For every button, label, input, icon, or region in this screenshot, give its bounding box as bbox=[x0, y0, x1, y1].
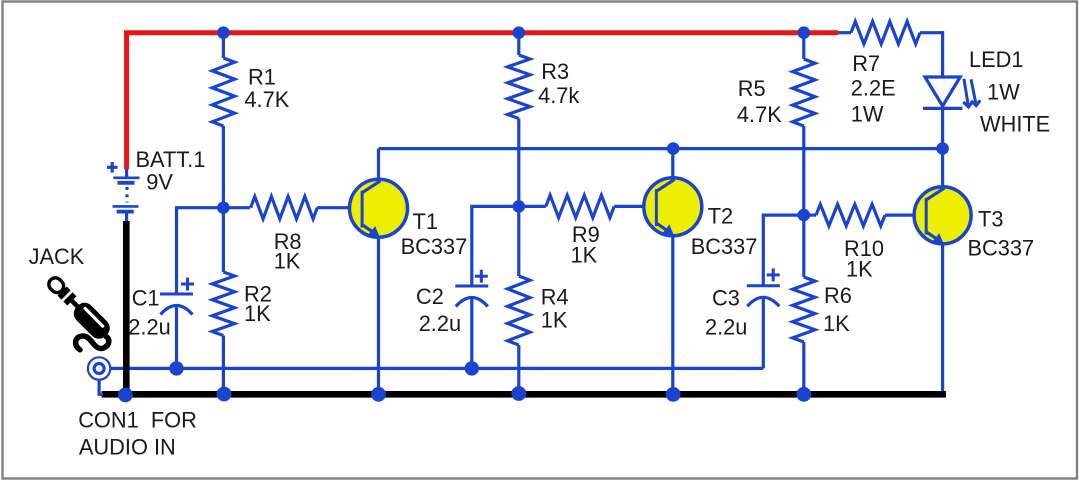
wire battery negative lead (black) bbox=[123, 221, 130, 394]
resistor R3 bbox=[508, 33, 530, 207]
wire T3 collector bbox=[941, 149, 944, 187]
resistor R7 bbox=[838, 22, 942, 44]
svg-text:R4: R4 bbox=[541, 285, 569, 310]
label R10 value bbox=[844, 236, 884, 282]
svg-text:2.2u: 2.2u bbox=[128, 315, 170, 340]
label R6 value bbox=[823, 283, 852, 336]
svg-text:R5: R5 bbox=[738, 76, 766, 101]
svg-text:T2: T2 bbox=[708, 204, 733, 229]
label LED1 value bbox=[969, 47, 1050, 137]
svg-text:WHITE: WHITE bbox=[980, 112, 1050, 137]
wire T2 emitter bbox=[671, 236, 674, 395]
wire collector rail bbox=[379, 147, 943, 150]
label T2 value bbox=[691, 204, 758, 259]
label T1 value bbox=[401, 209, 468, 259]
wire T1 collector bbox=[377, 149, 380, 180]
svg-text:LED1: LED1 bbox=[969, 47, 1024, 72]
label T3 value bbox=[968, 206, 1035, 260]
label R7 value bbox=[851, 51, 896, 126]
node base bias junction stage 3 bbox=[798, 209, 811, 222]
wire R7 to LED1 anode bbox=[941, 31, 944, 77]
svg-text:BC337: BC337 bbox=[968, 236, 1035, 261]
resistor R4 bbox=[508, 206, 530, 394]
label R8 value bbox=[274, 229, 302, 274]
svg-text:1K: 1K bbox=[571, 243, 598, 268]
capacitor C3 bbox=[747, 268, 780, 306]
svg-text:T3: T3 bbox=[978, 206, 1003, 231]
wire +9V top rail (red) bbox=[124, 30, 838, 35]
svg-text:R3: R3 bbox=[541, 59, 569, 84]
LED LED1 bbox=[923, 77, 962, 108]
node ground junction T2 emitter bbox=[666, 387, 681, 402]
node input line junction C2 bbox=[465, 361, 479, 375]
node ground junction R2 bbox=[217, 387, 232, 402]
node ground junction T1 emitter bbox=[371, 387, 386, 402]
capacitor C2 bbox=[455, 270, 488, 307]
wire audio input line bbox=[110, 367, 763, 370]
wire C2 top lead bbox=[472, 206, 519, 286]
node ground junction battery bbox=[118, 388, 133, 403]
label C1 value bbox=[128, 286, 170, 340]
label R9 value bbox=[571, 222, 600, 268]
wire C2 bottom lead bbox=[470, 297, 473, 368]
node top-rail junction at R1 bbox=[217, 26, 230, 39]
label C3 value bbox=[705, 286, 747, 340]
label BATT.1 value bbox=[136, 147, 206, 195]
wire C3 bottom lead bbox=[762, 297, 765, 369]
node top-rail junction at R5 bbox=[798, 26, 811, 39]
node top-rail junction at R3 bbox=[513, 26, 526, 39]
svg-text:1K: 1K bbox=[244, 301, 271, 326]
wire C1 top lead bbox=[177, 208, 224, 294]
resistor R10 bbox=[804, 204, 927, 226]
wire T2 collector bbox=[671, 149, 674, 178]
capacitor C1 bbox=[160, 278, 194, 315]
svg-text:1K: 1K bbox=[541, 308, 568, 333]
node input line junction C1 bbox=[169, 361, 183, 375]
svg-text:JACK: JACK bbox=[29, 244, 85, 269]
wire T1 emitter bbox=[377, 237, 380, 394]
svg-text:CON1 FOR: CON1 FOR bbox=[78, 407, 197, 432]
svg-text:T1: T1 bbox=[413, 209, 438, 234]
svg-text:2.2E: 2.2E bbox=[851, 76, 896, 101]
label R4 value bbox=[541, 285, 569, 333]
svg-text:BC337: BC337 bbox=[691, 234, 758, 259]
label battery polarity plus bbox=[107, 162, 118, 173]
svg-text:R6: R6 bbox=[824, 283, 852, 308]
svg-text:1K: 1K bbox=[823, 311, 850, 336]
svg-text:9V: 9V bbox=[146, 170, 173, 195]
label CON1 FOR AUDIO IN bbox=[78, 407, 197, 459]
svg-text:1K: 1K bbox=[274, 249, 301, 274]
transistor T2 bbox=[644, 178, 702, 236]
connector CON1 jack tip terminal bbox=[88, 357, 110, 379]
transistor T1 bbox=[350, 179, 408, 237]
jack cable squiggle bbox=[76, 336, 109, 350]
resistor R9 bbox=[519, 195, 658, 217]
node collector rail junction T2 bbox=[667, 142, 680, 155]
svg-text:C2: C2 bbox=[416, 284, 444, 309]
svg-text:4.7K: 4.7K bbox=[244, 87, 289, 112]
svg-text:1W: 1W bbox=[851, 102, 884, 127]
node base bias junction stage 1 bbox=[217, 201, 230, 214]
node ground junction R4 bbox=[511, 386, 526, 401]
svg-text:2.2u: 2.2u bbox=[705, 315, 747, 340]
LED1 light emission arrows bbox=[963, 79, 980, 107]
svg-text:4.7k: 4.7k bbox=[538, 83, 579, 108]
svg-text:1W: 1W bbox=[987, 80, 1020, 105]
resistor R6 bbox=[793, 215, 815, 394]
svg-text:R7: R7 bbox=[852, 51, 880, 76]
svg-text:1K: 1K bbox=[846, 257, 873, 282]
svg-text:C3: C3 bbox=[712, 286, 740, 311]
svg-text:4.7K: 4.7K bbox=[737, 102, 782, 127]
wire jack sleeve to ground bbox=[99, 380, 103, 395]
battery BATT.1 bbox=[113, 169, 140, 223]
node base bias junction stage 2 bbox=[513, 200, 526, 213]
label R5 value bbox=[737, 76, 782, 127]
wire C3 top lead bbox=[763, 215, 804, 286]
svg-text:C1: C1 bbox=[132, 286, 160, 311]
wire T3 emitter bbox=[941, 244, 944, 392]
label C2 value bbox=[416, 284, 461, 336]
label JACK bbox=[29, 244, 85, 269]
resistor R2 bbox=[212, 208, 234, 395]
svg-text:BC337: BC337 bbox=[401, 234, 468, 259]
svg-text:AUDIO IN: AUDIO IN bbox=[79, 435, 176, 460]
node collector rail junction T3 / LED bbox=[936, 142, 949, 155]
connector CON1 jack plug icon bbox=[43, 272, 113, 342]
svg-text:2.2u: 2.2u bbox=[419, 311, 461, 336]
label R3 value bbox=[538, 59, 579, 108]
wire ground bottom rail (black) bbox=[102, 391, 946, 398]
label R1 value bbox=[244, 65, 289, 112]
label R2 value bbox=[244, 281, 272, 325]
resistor R5 bbox=[793, 33, 815, 215]
node ground junction R6 bbox=[796, 387, 811, 402]
wire LED1 cathode to collector rail bbox=[941, 108, 944, 148]
resistor R8 bbox=[223, 197, 363, 219]
wire C1 bottom lead bbox=[175, 305, 178, 368]
svg-text:R1: R1 bbox=[248, 65, 276, 90]
resistor R1 bbox=[212, 33, 234, 208]
wire battery positive lead (red) bbox=[124, 33, 129, 170]
transistor T3 bbox=[914, 187, 971, 244]
svg-text:BATT.1: BATT.1 bbox=[136, 147, 206, 172]
